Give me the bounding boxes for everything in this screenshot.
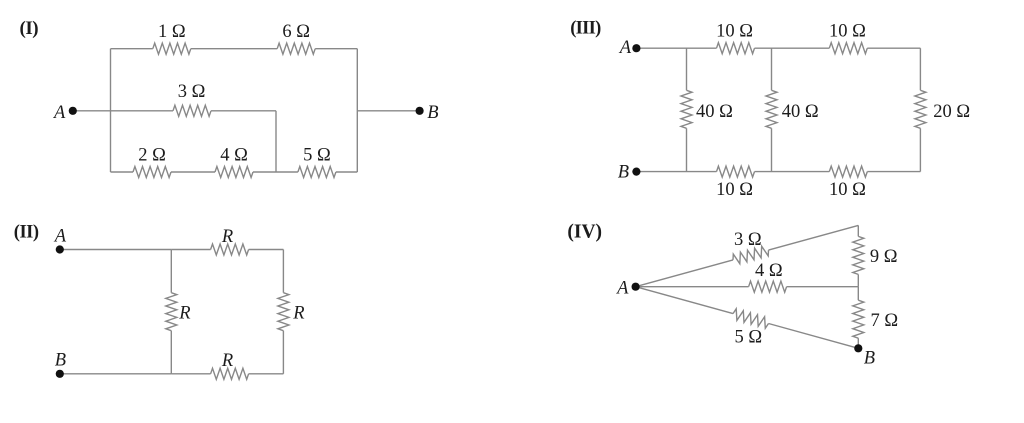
wire rail3 lower (III) bbox=[919, 128, 921, 171]
wire rail1 upper (III) bbox=[686, 48, 688, 90]
svg-text:20 Ω: 20 Ω bbox=[933, 102, 970, 122]
wire mid rail lower (II) bbox=[170, 331, 172, 374]
wire bottom mid (III) bbox=[755, 171, 830, 173]
wire 3ohm to junction (I) bbox=[211, 110, 276, 112]
wire rail1 lower (III) bbox=[686, 128, 688, 171]
resistor 10 ohm top-right (III) bbox=[829, 43, 867, 54]
svg-text:R: R bbox=[292, 304, 304, 324]
node A terminal (IV) bbox=[632, 283, 640, 291]
svg-text:3 Ω: 3 Ω bbox=[178, 82, 206, 102]
wire 4 ohm to rail (IV) bbox=[787, 286, 859, 288]
svg-text:B: B bbox=[427, 103, 438, 123]
svg-text:7 Ω: 7 Ω bbox=[871, 311, 899, 331]
svg-text:10 Ω: 10 Ω bbox=[829, 22, 866, 42]
wire top-left (I) bbox=[111, 48, 153, 50]
svg-text:2 Ω: 2 Ω bbox=[138, 146, 166, 166]
svg-text:4 Ω: 4 Ω bbox=[220, 146, 248, 166]
resistor R middle (II) bbox=[166, 293, 177, 331]
resistor 5 ohm (IV) bbox=[733, 309, 769, 329]
node A terminal (III) bbox=[632, 44, 640, 52]
wire bottom-mid1 (I) bbox=[171, 171, 215, 173]
svg-text:A: A bbox=[53, 226, 67, 246]
wire rail3 upper (III) bbox=[919, 48, 921, 90]
svg-text:A: A bbox=[52, 103, 66, 123]
resistor 9 ohm (IV) bbox=[853, 236, 864, 274]
wire A to 4 ohm (IV) bbox=[636, 286, 749, 288]
svg-text:(IV): (IV) bbox=[567, 221, 602, 242]
svg-text:A: A bbox=[615, 278, 629, 298]
wire A to 3ohm (I) bbox=[73, 110, 173, 112]
svg-text:R: R bbox=[178, 304, 190, 324]
wire top-right (I) bbox=[315, 48, 357, 50]
svg-text:10 Ω: 10 Ω bbox=[716, 180, 753, 200]
svg-text:4 Ω: 4 Ω bbox=[755, 261, 783, 281]
node B terminal (I) bbox=[416, 107, 424, 115]
wire top mid (III) bbox=[755, 47, 830, 49]
resistor 5 ohm (I) bbox=[298, 167, 336, 178]
svg-text:10 Ω: 10 Ω bbox=[829, 180, 866, 200]
wire vertical connector (I) bbox=[275, 111, 277, 172]
svg-text:10 Ω: 10 Ω bbox=[716, 22, 753, 42]
wire bottom right (III) bbox=[867, 171, 920, 173]
wire corner to 9 ohm (IV) bbox=[857, 225, 859, 236]
resistor 7 ohm (IV) bbox=[853, 300, 864, 338]
wire bottom-left (I) bbox=[111, 171, 134, 173]
resistor 40 ohm middle (III) bbox=[766, 90, 777, 128]
wire A to 5 ohm (IV) bbox=[636, 287, 733, 314]
wire rail2 upper (III) bbox=[771, 48, 773, 90]
svg-text:B: B bbox=[618, 163, 629, 183]
svg-text:1 Ω: 1 Ω bbox=[158, 22, 186, 42]
wire rail2 lower (III) bbox=[771, 128, 773, 171]
resistor 2 ohm (I) bbox=[133, 167, 171, 178]
svg-text:R: R bbox=[221, 351, 233, 371]
resistor 6 ohm (I) bbox=[277, 43, 315, 54]
wire top-mid (I) bbox=[191, 48, 277, 50]
resistor 3 ohm (I) bbox=[173, 105, 211, 116]
wire B to rail1 bottom (III) bbox=[636, 171, 716, 173]
node A terminal (II) bbox=[56, 245, 64, 253]
wire 7 ohm to B (IV) bbox=[857, 338, 859, 348]
resistor 10 ohm bottom-left (III) bbox=[717, 166, 755, 177]
resistor 4 ohm (IV) bbox=[749, 281, 787, 292]
resistor 10 ohm top-left (III) bbox=[717, 43, 755, 54]
svg-text:B: B bbox=[55, 350, 66, 370]
wire right rail lower (II) bbox=[282, 331, 284, 374]
wire bottom-mid2 (I) bbox=[253, 171, 298, 173]
wire A to 3 ohm (IV) bbox=[636, 260, 733, 287]
wire right rail upper (II) bbox=[282, 250, 284, 293]
resistor 10 ohm bottom-right (III) bbox=[829, 166, 867, 177]
wire bottom R to rail (II) bbox=[249, 373, 284, 375]
svg-text:B: B bbox=[864, 348, 875, 368]
wire junction to top R (II) bbox=[171, 249, 210, 251]
wire left rail (I) bbox=[110, 49, 112, 172]
wire A to rail1 top (III) bbox=[636, 47, 716, 49]
node B terminal (III) bbox=[632, 168, 640, 176]
wire A to junction (II) bbox=[60, 249, 172, 251]
resistor R top (II) bbox=[211, 244, 249, 255]
wire top right (III) bbox=[867, 47, 920, 49]
svg-text:40 Ω: 40 Ω bbox=[696, 102, 733, 122]
resistor 4 ohm (I) bbox=[215, 167, 253, 178]
wire 5 ohm to B (IV) bbox=[769, 324, 859, 349]
resistor 40 ohm left (III) bbox=[681, 90, 692, 128]
wire B to junction (II) bbox=[60, 373, 172, 375]
node A terminal (I) bbox=[69, 107, 77, 115]
svg-text:6 Ω: 6 Ω bbox=[282, 22, 310, 42]
wire right rail (I) bbox=[356, 49, 358, 172]
node B terminal (IV) bbox=[854, 344, 862, 352]
resistor 1 ohm (I) bbox=[153, 43, 191, 54]
node B terminal (II) bbox=[56, 370, 64, 378]
svg-text:R: R bbox=[221, 227, 233, 247]
svg-text:(III): (III) bbox=[570, 19, 601, 39]
wire bottom-right (I) bbox=[336, 171, 357, 173]
wire mid rail upper (II) bbox=[170, 250, 172, 293]
svg-text:3 Ω: 3 Ω bbox=[734, 230, 762, 250]
svg-text:5 Ω: 5 Ω bbox=[734, 328, 762, 348]
svg-text:9 Ω: 9 Ω bbox=[870, 247, 898, 267]
svg-text:A: A bbox=[618, 38, 632, 58]
resistor R right (II) bbox=[278, 293, 289, 331]
svg-text:40 Ω: 40 Ω bbox=[782, 102, 819, 122]
wire 3 ohm to corner (IV) bbox=[769, 225, 859, 250]
wire 9 ohm to mid (IV) bbox=[857, 274, 859, 286]
wire junction to bottom R (II) bbox=[171, 373, 210, 375]
resistor 20 ohm right (III) bbox=[915, 90, 926, 128]
svg-text:(I): (I) bbox=[20, 18, 39, 39]
resistor 3 ohm (IV) bbox=[733, 246, 769, 263]
wire top R to rail (II) bbox=[249, 249, 284, 251]
resistor R bottom (II) bbox=[211, 368, 249, 379]
svg-text:5 Ω: 5 Ω bbox=[303, 146, 331, 166]
wire rail to B (I) bbox=[357, 110, 419, 112]
wire mid to 7 ohm (IV) bbox=[857, 287, 859, 301]
svg-text:(II): (II) bbox=[14, 223, 39, 243]
